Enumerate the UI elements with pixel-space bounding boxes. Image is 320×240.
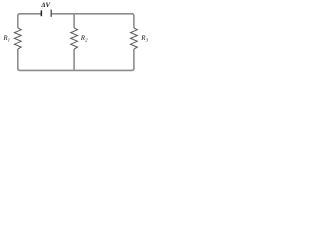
- svg-text:ΔV: ΔV: [40, 2, 51, 9]
- svg-text:R3: R3: [140, 34, 148, 44]
- wire: top rail from battery to top-right corner and down: [52, 14, 134, 28]
- wire: middle branch bottom riser: [73, 49, 75, 70]
- battery negative plate (short thick bar): [41, 10, 43, 16]
- battery positive plate (long thin bar): [51, 10, 52, 17]
- resistor R3 zigzag: [131, 28, 138, 49]
- resistor R2 zigzag: [71, 28, 78, 49]
- wire: top-left segment from corner to battery: [18, 14, 41, 28]
- svg-text:R1: R1: [2, 34, 10, 44]
- svg-text:R2: R2: [80, 34, 88, 44]
- wire: middle branch top riser: [73, 14, 75, 28]
- wire: left side bottom + bottom rail + right side bottom: [18, 49, 134, 70]
- resistor R1 zigzag: [14, 28, 21, 49]
